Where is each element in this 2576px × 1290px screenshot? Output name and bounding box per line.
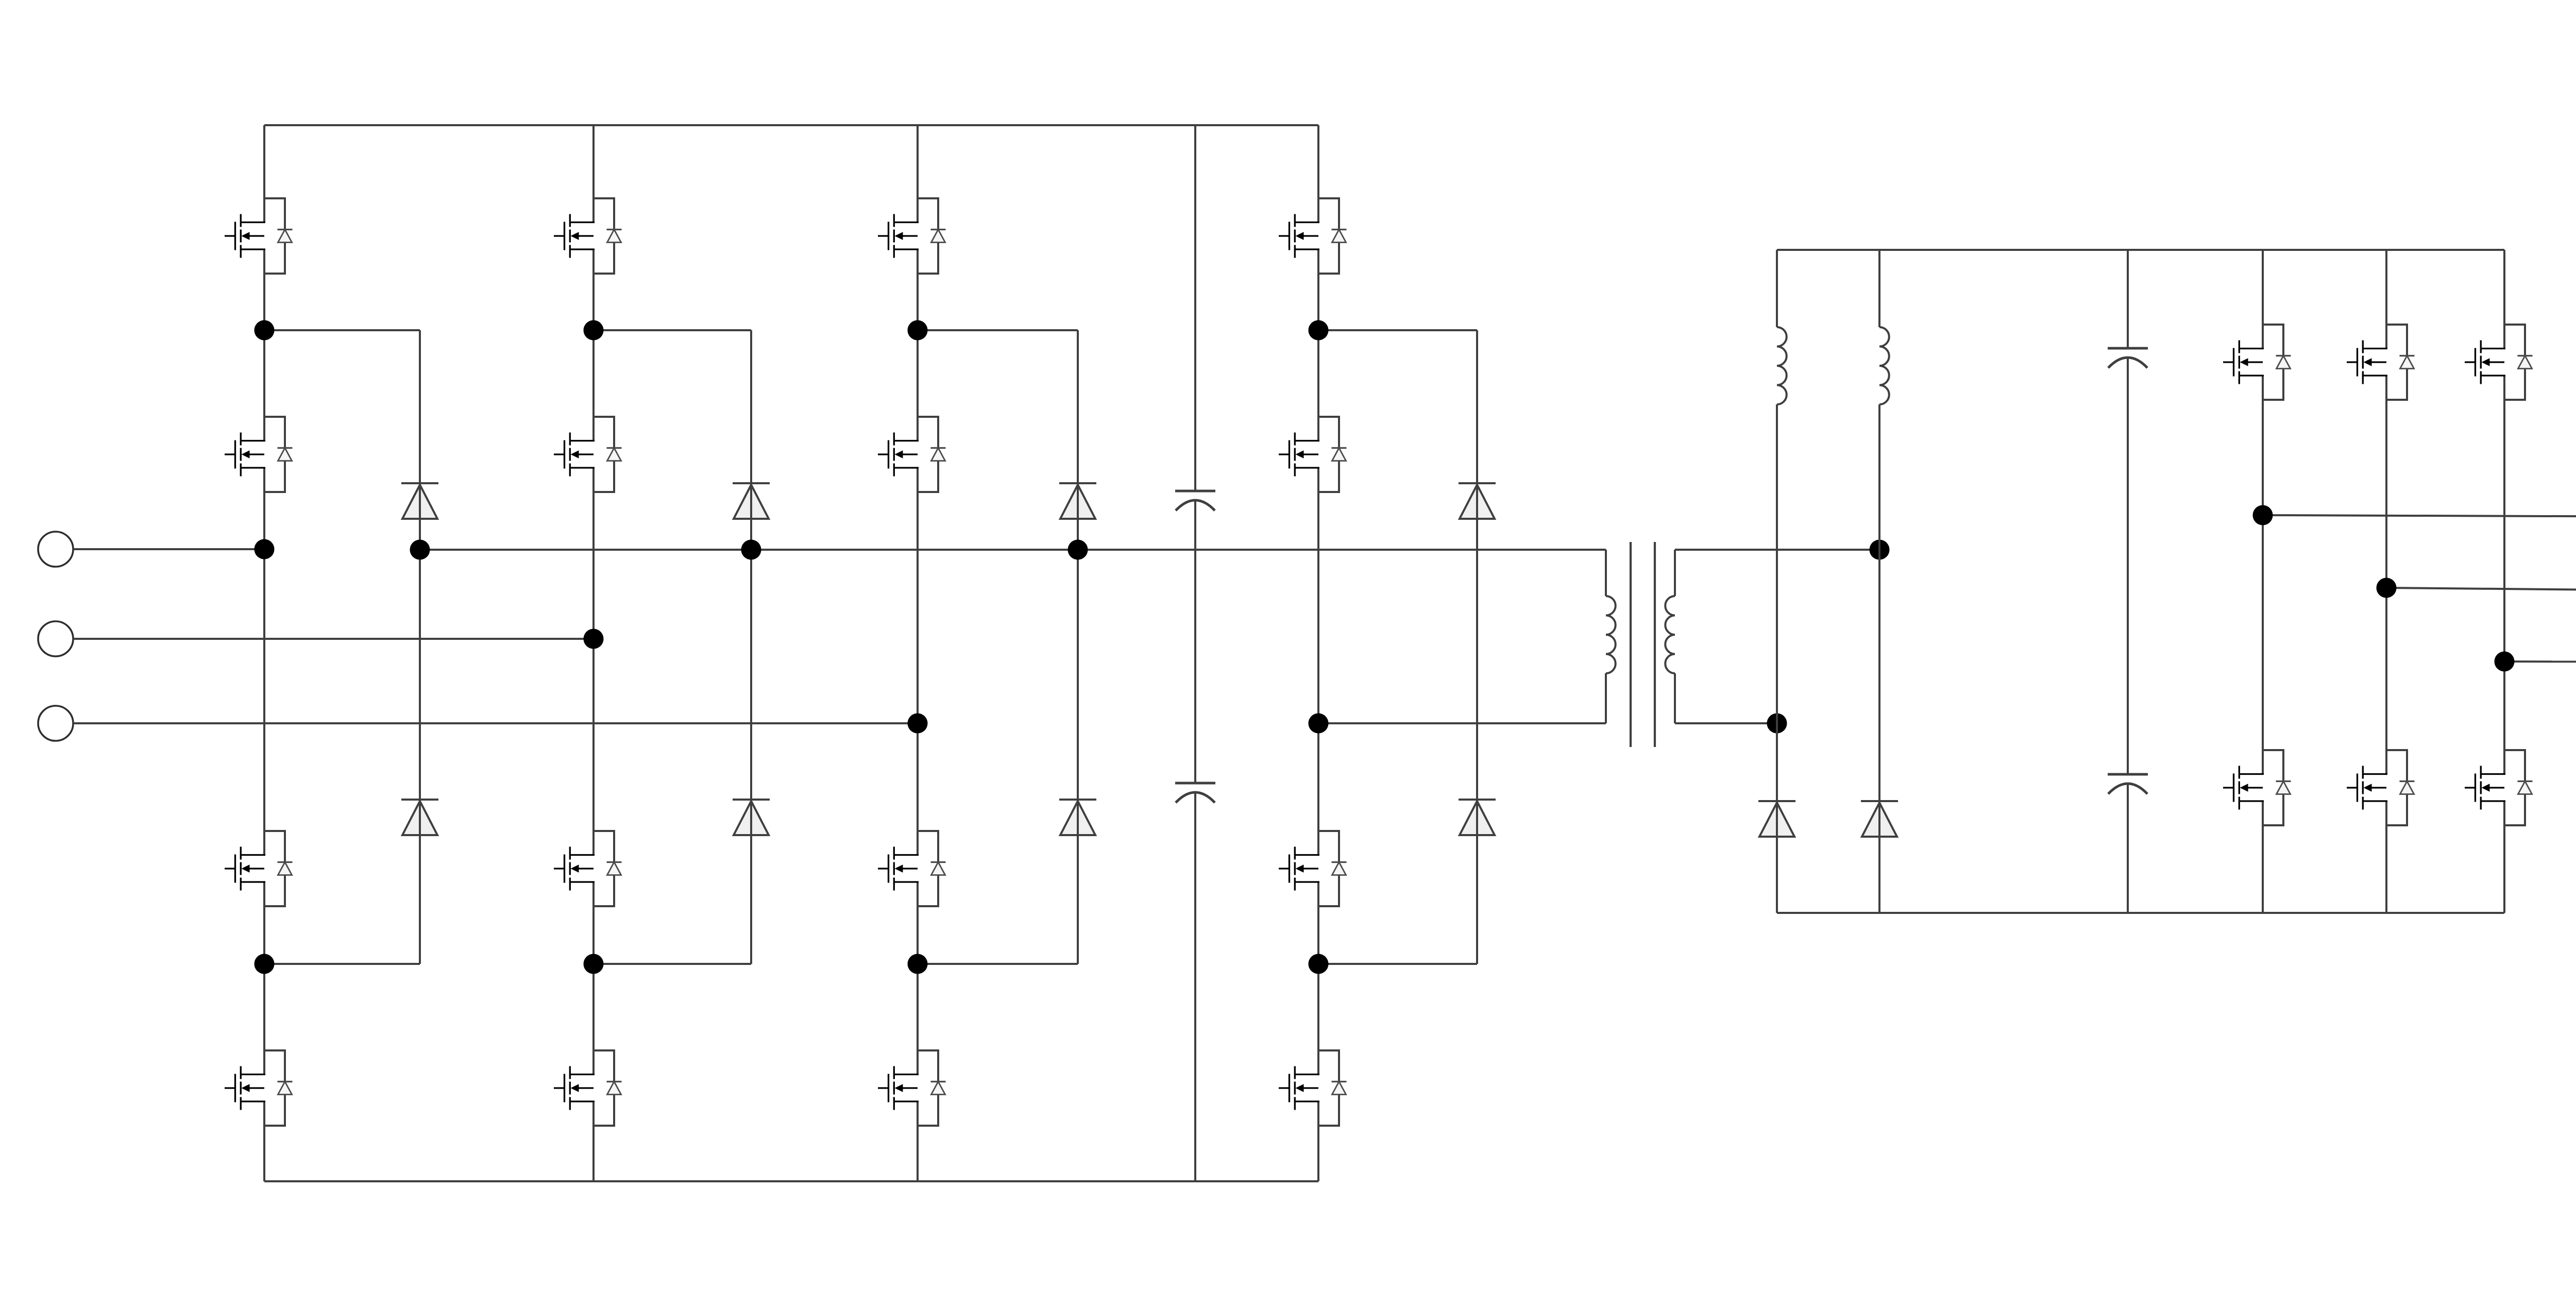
transistor Q8 (N-MOSFET with body diode): [554, 1050, 622, 1126]
wire leg 4 vertical segments: [1317, 125, 1319, 1181]
node output phase U junction: [2253, 505, 2273, 525]
transistor Q10 (N-MOSFET with body diode): [878, 417, 946, 492]
transistor Q17 (N-MOSFET with body diode): [2223, 325, 2291, 400]
diode D6 (lower clamp): [1059, 800, 1096, 835]
inductor L2 branch: [1879, 250, 1889, 913]
wire leg 3 upper node to clamp column: [918, 329, 1078, 331]
node leg 2 lower junction: [584, 954, 604, 974]
capacitor C1 (upper DC-link): [1175, 491, 1215, 511]
wire output phase W line (with small break): [2504, 661, 2576, 662]
diode D5 (upper clamp): [1059, 483, 1096, 519]
wire leg 3 vertical segments: [917, 125, 919, 1181]
wire bottom DC bus (left converter): [264, 1180, 1318, 1182]
transistor Q2 (N-MOSFET with body diode): [225, 417, 293, 492]
node output phase W junction: [2495, 652, 2515, 672]
diode D10 (rectifier): [1861, 801, 1898, 837]
capacitor C4 (lower output): [2108, 774, 2148, 794]
wire leg 1 upper node to clamp column: [264, 329, 420, 331]
transformer T1 primary winding: [1606, 550, 1616, 723]
wire secondary top to inductor branch 2: [1675, 549, 1879, 551]
node leg 4 upper junction: [1309, 320, 1329, 341]
node leg 2 upper junction: [584, 320, 604, 341]
node leg 3 upper junction: [908, 320, 928, 341]
capacitor C3 (upper output): [2108, 348, 2148, 368]
wire top DC bus (left converter): [264, 124, 1318, 126]
transistor Q3 (N-MOSFET with body diode): [225, 831, 293, 906]
transistor Q15 (N-MOSFET with body diode): [1279, 831, 1347, 906]
wire clamp column 2 vertical: [750, 330, 752, 964]
transistor Q4 (N-MOSFET with body diode): [225, 1050, 293, 1126]
transistor Q6 (N-MOSFET with body diode): [554, 417, 622, 492]
terminal input phase B: [38, 621, 73, 656]
transformer T1 core: [1631, 542, 1655, 747]
node secondary top junction: [1870, 540, 1890, 560]
wire leg 2 vertical segments: [592, 125, 595, 1181]
node leg 1 lower junction: [255, 954, 275, 974]
wire output phase V line: [2386, 588, 2576, 590]
wire leg 2 upper node to clamp column: [594, 329, 751, 331]
wire leg 1 lower node to clamp column: [264, 963, 420, 965]
wire clamp column 3 vertical: [1077, 330, 1079, 964]
diode D8 (lower clamp): [1459, 800, 1496, 835]
transistor Q18 (N-MOSFET with body diode): [2223, 750, 2291, 825]
inductor L1 branch: [1777, 250, 1787, 913]
wire clamp column 1 vertical: [419, 330, 421, 964]
node phase B to leg 2: [584, 629, 604, 649]
diode D4 (lower clamp): [733, 800, 770, 835]
terminal input phase A: [38, 532, 73, 567]
transformer T1 secondary winding: [1665, 550, 1675, 723]
node leg 3 lower junction: [908, 954, 928, 974]
diode D7 (upper clamp): [1459, 483, 1496, 519]
terminal input phase C: [38, 706, 73, 741]
wire input phase B line: [73, 638, 594, 640]
transistor Q22 (N-MOSFET with body diode): [2465, 750, 2533, 825]
capacitor C2 (lower DC-link): [1175, 783, 1215, 803]
transistor Q5 (N-MOSFET with body diode): [554, 198, 622, 274]
node output phase V junction: [2377, 578, 2397, 598]
diode D9 (rectifier): [1758, 801, 1795, 837]
diode D3 (upper clamp): [733, 483, 770, 519]
wire top bus (right converter): [1777, 249, 2504, 251]
transistor Q16 (N-MOSFET with body diode): [1279, 1050, 1347, 1126]
transistor Q7 (N-MOSFET with body diode): [554, 831, 622, 906]
node phase A to leg 1: [255, 539, 275, 559]
node leg 1 upper junction: [255, 320, 275, 341]
wire leg 1 vertical segments: [263, 125, 265, 1181]
wire neutral rail (clamp midpoints to transformer primary top): [420, 549, 1606, 551]
node neutral at clamp column 1: [410, 540, 430, 560]
transistor Q11 (N-MOSFET with body diode): [878, 831, 946, 906]
transistor Q20 (N-MOSFET with body diode): [2347, 750, 2415, 825]
node neutral at clamp column 2: [741, 540, 761, 560]
wire output capacitor column vertical: [2127, 250, 2129, 913]
node leg 4 lower junction: [1309, 954, 1329, 974]
transistor Q14 (N-MOSFET with body diode): [1279, 417, 1347, 492]
wire right leg 1 vertical segments: [2262, 250, 2264, 913]
wire leg 2 lower node to clamp column: [594, 963, 751, 965]
wire leg 4 upper node to clamp column: [1318, 329, 1477, 331]
wire leg 3 lower node to clamp column: [918, 963, 1078, 965]
wire bottom bus (right converter): [1777, 912, 2504, 914]
wire leg 4 lower node to clamp column: [1318, 963, 1477, 965]
transistor Q12 (N-MOSFET with body diode): [878, 1050, 946, 1126]
node neutral at clamp column 3: [1068, 540, 1088, 560]
wire DC-link capacitor column vertical: [1194, 125, 1196, 1181]
transistor Q13 (N-MOSFET with body diode): [1279, 198, 1347, 274]
node secondary bottom junction: [1767, 714, 1787, 734]
diode D2 (lower clamp): [401, 800, 438, 835]
wire right leg 2 vertical segments: [2385, 250, 2387, 913]
wire input phase C line: [73, 722, 918, 724]
transistor Q19 (N-MOSFET with body diode): [2347, 325, 2415, 400]
node leg 4 phase junction: [1309, 714, 1329, 734]
transistor Q1 (N-MOSFET with body diode): [225, 198, 293, 274]
wire input phase A line: [73, 548, 264, 550]
wire output phase U line: [2263, 515, 2576, 517]
wire clamp column 4 vertical: [1476, 330, 1478, 964]
wire secondary bottom to inductor branch 1: [1675, 722, 1777, 724]
transistor Q21 (N-MOSFET with body diode): [2465, 325, 2533, 400]
diode D1 (upper clamp): [401, 483, 438, 519]
node phase C to leg 3: [908, 714, 928, 734]
wire right leg 3 vertical segments: [2503, 250, 2505, 913]
transistor Q9 (N-MOSFET with body diode): [878, 198, 946, 274]
wire leg 4 phase to transformer primary bottom: [1318, 722, 1606, 724]
